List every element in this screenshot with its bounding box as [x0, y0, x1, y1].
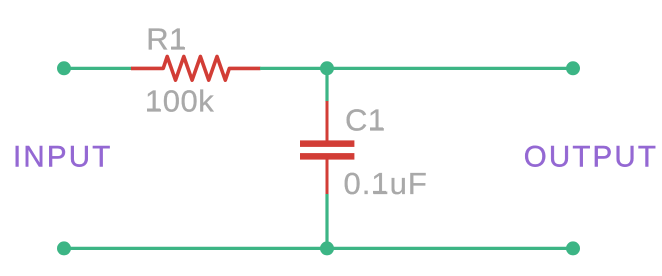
node output terminal dot — [566, 61, 580, 75]
node bottom-left terminal dot — [57, 241, 71, 255]
wire resistor to junction A — [260, 67, 327, 70]
capacitor C1 value label 0.1uF — [344, 166, 428, 201]
capacitor C1 — [300, 101, 354, 195]
wire top-left (input to resistor) — [64, 67, 132, 70]
wire vertical capacitor to bottom junction — [325, 194, 328, 248]
resistor R1 reference label — [146, 22, 187, 57]
wire junction A to output — [327, 67, 573, 70]
resistor R1 — [131, 57, 261, 81]
svg-text:INPUT: INPUT — [13, 141, 113, 174]
net label INPUT — [13, 141, 113, 174]
svg-text:OUTPUT: OUTPUT — [524, 141, 658, 174]
node bottom-right terminal dot — [566, 241, 580, 255]
svg-text:100k: 100k — [145, 84, 214, 119]
node input terminal dot — [57, 61, 71, 75]
resistor R1 value label 100k — [145, 84, 214, 119]
wire bottom-right — [327, 247, 573, 250]
net label OUTPUT — [524, 141, 658, 174]
svg-text:0.1uF: 0.1uF — [344, 166, 428, 201]
svg-text:R1: R1 — [146, 22, 187, 57]
wire bottom-left — [64, 247, 327, 250]
node A junction dot (top middle) — [320, 61, 334, 75]
svg-text:C1: C1 — [345, 103, 386, 138]
wire vertical from junction A to capacitor — [325, 68, 328, 101]
capacitor C1 reference label — [345, 103, 386, 138]
node bottom junction dot — [320, 241, 334, 255]
